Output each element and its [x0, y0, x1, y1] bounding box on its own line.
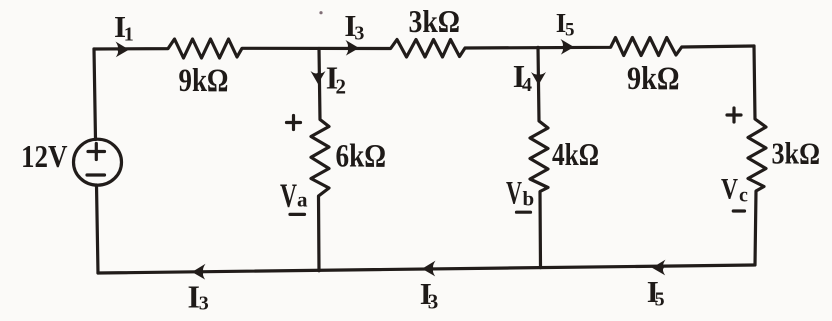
svg-text:3: 3 — [354, 23, 364, 45]
svg-text:a: a — [297, 188, 308, 212]
svg-text:V: V — [721, 172, 738, 205]
svg-text:V: V — [506, 175, 522, 211]
svg-text:3kΩ: 3kΩ — [772, 136, 821, 171]
svg-text:c: c — [739, 184, 748, 206]
svg-text:4: 4 — [522, 74, 532, 96]
svg-text:6kΩ: 6kΩ — [336, 139, 387, 175]
svg-text:12V: 12V — [21, 138, 68, 174]
svg-text:5: 5 — [655, 288, 665, 310]
svg-text:3: 3 — [199, 293, 209, 315]
svg-text:3kΩ: 3kΩ — [409, 3, 461, 39]
svg-text:b: b — [523, 187, 535, 211]
svg-text:1: 1 — [124, 24, 134, 46]
svg-text:5: 5 — [565, 20, 575, 41]
svg-text:3: 3 — [428, 290, 439, 314]
svg-text:9kΩ: 9kΩ — [179, 63, 229, 99]
svg-text:4kΩ: 4kΩ — [552, 136, 599, 172]
svg-text:2: 2 — [336, 74, 347, 98]
svg-text:9kΩ: 9kΩ — [627, 61, 680, 97]
svg-text:V: V — [280, 178, 297, 215]
